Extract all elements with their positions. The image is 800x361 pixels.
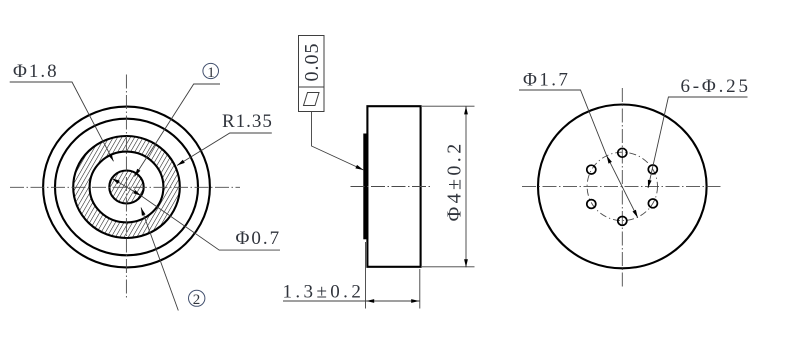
svg-text:Φ1.8: Φ1.8 — [13, 61, 59, 82]
balloon 2 — [189, 290, 205, 306]
horizontal centerline — [10, 186, 240, 188]
hatched center disc phi0.7 — [109, 171, 143, 204]
body rectangle — [367, 106, 420, 267]
svg-text:1.3±0.2: 1.3±0.2 — [283, 281, 365, 302]
svg-text:Φ0.7: Φ0.7 — [236, 228, 282, 249]
right dimension extension lines — [422, 105, 475, 107]
svg-text:1: 1 — [207, 65, 215, 81]
vertical centerline — [125, 75, 127, 299]
hole upper-right — [648, 165, 657, 174]
hole upper-left — [587, 165, 596, 174]
bottom dimension extension lines — [365, 242, 367, 309]
svg-text:Φ1.7: Φ1.7 — [523, 70, 570, 91]
big circle — [538, 104, 707, 268]
hole bottom — [618, 217, 627, 226]
svg-text:2: 2 — [193, 292, 201, 308]
phi0.7 diameter line with arrows — [112, 178, 141, 195]
hole top — [618, 148, 627, 157]
membrane bar — [363, 134, 368, 240]
centerline V — [621, 88, 623, 287]
bottom dimension line — [283, 300, 420, 302]
second circle — [55, 119, 198, 256]
leader 6-phi.25 — [648, 97, 748, 188]
outer circle (phi4) — [43, 107, 210, 268]
right dimension line — [465, 106, 467, 267]
diameter line phi1.7 — [607, 156, 638, 218]
svg-text:R1.35: R1.35 — [222, 111, 273, 132]
leader from FCF — [312, 112, 364, 171]
hole lower-right — [648, 199, 657, 208]
hole lower-left — [587, 200, 596, 209]
flatness symbol — [304, 93, 320, 106]
leader balloon 1 — [135, 84, 221, 177]
balloon 1 — [203, 63, 219, 78]
leader phi1.7 — [519, 90, 607, 156]
small circle phi0.7 — [109, 171, 143, 204]
leader R1.35 — [177, 133, 272, 166]
hatched annulus between R1.35 circle and phi1.8 circle — [73, 136, 180, 238]
centerline middle — [351, 186, 432, 188]
svg-text:Φ4±0.2: Φ4±0.2 — [444, 140, 466, 221]
fourth circle phi1.8 — [90, 152, 164, 223]
svg-text:6-Φ.25: 6-Φ.25 — [681, 76, 751, 97]
leader phi1.8 — [10, 82, 114, 161]
feature control frame box — [299, 36, 325, 112]
leader balloon 2 — [141, 208, 178, 311]
svg-text:0.05: 0.05 — [301, 43, 323, 82]
third circle R1.35 — [73, 136, 180, 238]
bolt circle dash-dot — [587, 152, 657, 220]
centerline H — [522, 185, 721, 187]
label phi0.7 with leader — [141, 196, 280, 250]
